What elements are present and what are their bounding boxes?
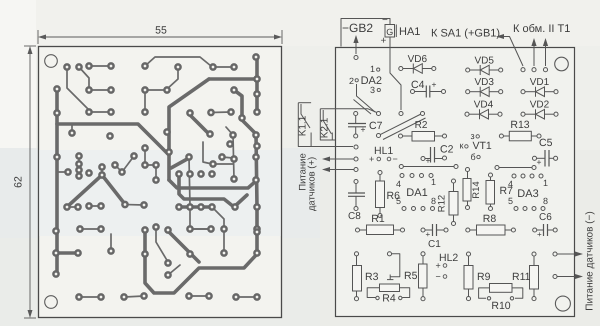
svg-text:55: 55 — [155, 25, 167, 37]
svg-text:+: + — [361, 125, 366, 135]
svg-text:к: к — [460, 141, 464, 151]
svg-text:VD2: VD2 — [530, 100, 550, 111]
svg-text:б: б — [471, 152, 476, 162]
svg-text:датчиков (+): датчиков (+) — [307, 157, 318, 211]
svg-text:VD5: VD5 — [474, 56, 494, 67]
svg-text:+: + — [436, 261, 441, 271]
svg-text:5: 5 — [508, 196, 513, 206]
svg-text:1: 1 — [370, 64, 375, 74]
svg-text:−: − — [382, 15, 388, 26]
svg-text:C7: C7 — [369, 120, 383, 132]
svg-text:+: + — [537, 157, 542, 167]
svg-text:Питание датчиков (−): Питание датчиков (−) — [585, 211, 596, 310]
svg-text:DA3: DA3 — [517, 188, 538, 200]
svg-text:+: + — [426, 156, 431, 166]
svg-text:VD3: VD3 — [474, 77, 494, 88]
svg-text:R5: R5 — [404, 270, 418, 282]
svg-text:DA1: DA1 — [406, 187, 427, 199]
svg-text:HA1: HA1 — [399, 26, 420, 38]
svg-text:R4: R4 — [382, 293, 396, 305]
svg-text:R13: R13 — [510, 119, 529, 131]
svg-text:K2.1: K2.1 — [320, 117, 331, 138]
svg-text:К обм. II Т1: К обм. II Т1 — [513, 23, 570, 35]
svg-text:2: 2 — [349, 76, 354, 86]
svg-text:HL1: HL1 — [374, 145, 393, 157]
svg-text:R7: R7 — [500, 185, 514, 197]
svg-text:+: + — [369, 154, 374, 164]
svg-text:HL2: HL2 — [439, 252, 458, 264]
svg-text:R11: R11 — [512, 271, 531, 283]
svg-text:К SA1 (+GB1): К SA1 (+GB1) — [431, 28, 500, 40]
svg-text:R14: R14 — [471, 181, 482, 198]
svg-text:R12: R12 — [437, 195, 448, 212]
svg-text:R9: R9 — [477, 271, 491, 283]
svg-text:C1: C1 — [428, 239, 441, 250]
svg-text:3: 3 — [370, 85, 375, 95]
svg-text:+: + — [537, 230, 542, 239]
svg-text:4: 4 — [396, 179, 401, 189]
svg-text:R8: R8 — [483, 213, 497, 225]
svg-text:R6: R6 — [387, 190, 401, 202]
svg-text:C8: C8 — [348, 211, 361, 222]
svg-text:62: 62 — [13, 176, 25, 188]
svg-text:VD1: VD1 — [530, 77, 550, 88]
svg-text:VT1: VT1 — [473, 140, 492, 152]
svg-text:−: − — [393, 154, 398, 164]
svg-text:8: 8 — [543, 196, 548, 206]
svg-text:−: − — [436, 272, 441, 282]
svg-text:G: G — [386, 27, 393, 37]
svg-text:C5: C5 — [539, 137, 553, 149]
svg-text:R2: R2 — [415, 120, 428, 131]
svg-text:1: 1 — [543, 178, 548, 188]
svg-text:+: + — [432, 80, 437, 90]
svg-text:VD4: VD4 — [474, 100, 494, 111]
svg-text:+: + — [381, 36, 387, 47]
svg-text:R1: R1 — [371, 213, 385, 225]
svg-text:8: 8 — [431, 196, 436, 206]
svg-text:C2: C2 — [440, 144, 454, 156]
svg-text:1: 1 — [431, 177, 436, 187]
svg-text:C6: C6 — [539, 212, 552, 223]
svg-text:VD6: VD6 — [408, 54, 428, 65]
svg-text:+: + — [426, 230, 431, 239]
svg-text:−GB2: −GB2 — [342, 21, 373, 35]
svg-text:R10: R10 — [491, 300, 510, 312]
svg-text:K1.1: K1.1 — [298, 115, 309, 136]
svg-text:R3: R3 — [365, 271, 379, 283]
